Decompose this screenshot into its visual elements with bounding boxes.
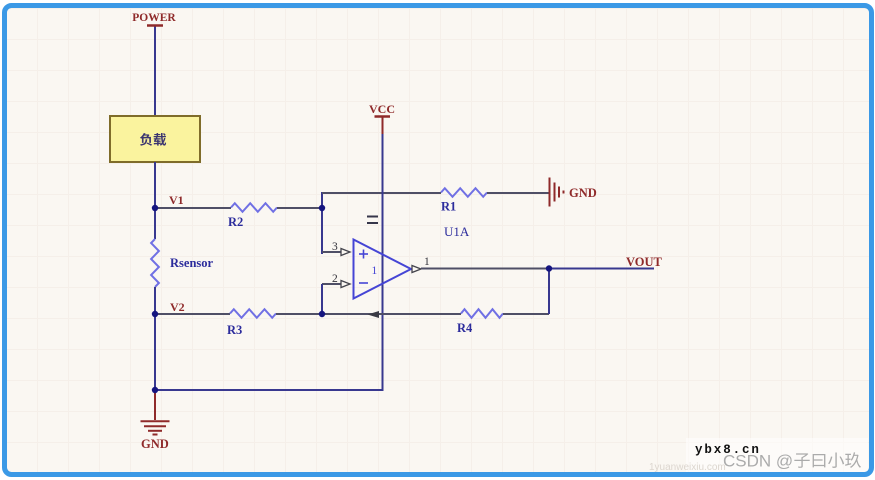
svg-text:U1A: U1A [444,224,470,239]
svg-text:2: 2 [332,273,338,285]
svg-text:CSDN @: CSDN @ [723,452,793,471]
svg-text:R1: R1 [441,200,456,214]
svg-text:R2: R2 [228,215,243,229]
svg-text:3: 3 [332,241,338,253]
svg-text:POWER: POWER [132,12,176,24]
svg-text:1: 1 [424,256,430,268]
svg-text:1yuanweixiu.com: 1yuanweixiu.com [649,462,726,473]
svg-text:V1: V1 [169,193,184,207]
svg-text:VCC: VCC [369,102,395,116]
svg-text:1: 1 [372,265,378,277]
svg-text:GND: GND [569,186,597,200]
svg-text:R4: R4 [457,321,473,335]
svg-text:R3: R3 [227,323,242,337]
svg-text:GND: GND [141,437,169,451]
svg-text:VOUT: VOUT [626,255,663,269]
svg-text:V2: V2 [170,300,185,314]
svg-text:Rsensor: Rsensor [170,256,214,270]
